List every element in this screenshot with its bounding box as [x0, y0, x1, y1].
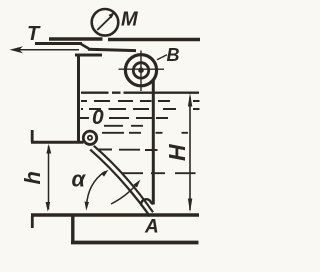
- gauge needle: [97, 16, 111, 30]
- pulley crosshair vertical: [140, 51, 142, 92]
- svg-text:α: α: [72, 167, 87, 192]
- cable hook at A: [141, 199, 153, 205]
- svg-text:T: T: [27, 23, 41, 45]
- H dimension line: [189, 97, 191, 210]
- lower step vertical: [71, 217, 74, 244]
- ledge upper lip: [31, 130, 34, 142]
- water dashes row 4: [104, 125, 143, 127]
- tension arrow T: [13, 49, 79, 51]
- floor: [31, 213, 199, 217]
- svg-text:H: H: [164, 144, 190, 161]
- svg-text:0: 0: [92, 106, 104, 129]
- svg-text:M: M: [121, 9, 139, 31]
- water dashes row 3: [80, 117, 168, 119]
- cable vertical down to A: [152, 80, 155, 205]
- svg-text:h: h: [20, 171, 45, 184]
- water surface line: [81, 91, 199, 93]
- svg-text:A: A: [144, 217, 159, 238]
- cable right segment to pulley: [88, 49, 136, 50]
- label B leader: [157, 55, 167, 60]
- water dashes row 1: [81, 100, 200, 102]
- wall top lip: [75, 54, 102, 57]
- ledge with hinge: [31, 141, 84, 144]
- pulley B outer: [125, 55, 156, 86]
- water dashes row 5: [102, 132, 188, 134]
- water dashes row 7: [98, 149, 158, 152]
- cable upper-left segment: [35, 42, 82, 45]
- pulley B inner: [133, 63, 148, 78]
- lower step horizontal: [71, 241, 199, 245]
- left wall: [77, 54, 80, 142]
- h dimension line: [48, 146, 50, 210]
- pulley axle: [138, 67, 144, 73]
- ceiling beam: [49, 37, 200, 41]
- gauge M circle: [92, 9, 119, 36]
- leader arrow to plate: [111, 186, 136, 205]
- svg-text:B: B: [167, 45, 180, 65]
- hinge O pin: [87, 135, 93, 141]
- plate lower line: [90, 150, 150, 217]
- water dashes row 10: [122, 172, 196, 174]
- pulley crosshair horizontal: [119, 68, 165, 70]
- floor left lip: [31, 216, 34, 228]
- alpha arc: [87, 172, 106, 206]
- plate upper line: [94, 146, 153, 213]
- cable jog: [81, 44, 89, 49]
- water dashes row 2: [81, 108, 200, 110]
- hinge O outer: [83, 131, 96, 144]
